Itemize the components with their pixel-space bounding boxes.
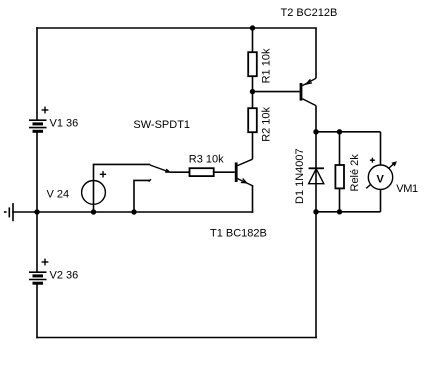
wire R3 to T1 base — [214, 171, 235, 173]
svg-text:T1 BC182B: T1 BC182B — [210, 227, 267, 239]
transistor T2 BC212B — [281, 7, 338, 105]
wire middle horizontal (ground net) — [13, 211, 253, 213]
switch SW-SPDT1 — [149, 165, 170, 182]
lever — [150, 165, 169, 172]
svg-text:VM1: VM1 — [396, 183, 418, 195]
wire right top rail — [316, 131, 381, 133]
ground — [5, 204, 13, 221]
wire bottom rail — [37, 337, 316, 339]
node: switch throw junction — [131, 209, 136, 214]
battery V2 — [29, 259, 78, 284]
wire T1 emitter vertical — [252, 186, 254, 212]
wire T1 collector vertical — [252, 132, 254, 159]
wire from lower throw to ground net — [134, 180, 149, 212]
svg-text:R1 10k: R1 10k — [260, 48, 272, 83]
resistor R1 — [248, 48, 272, 83]
voltage source V 24 — [47, 164, 150, 212]
lower throw contact tick — [149, 179, 151, 181]
voltmeter VM1 — [366, 132, 418, 212]
wire right bottom rail — [316, 211, 381, 213]
wire T2 emitter vertical — [315, 28, 317, 78]
svg-text:V2 36: V2 36 — [50, 270, 79, 282]
svg-text:Relé 2k: Relé 2k — [349, 154, 361, 192]
wire top rail — [37, 27, 316, 29]
node: relay bottom junction — [337, 209, 342, 214]
node: R1 top junction — [250, 25, 255, 30]
diode D1 1N4007 — [294, 132, 324, 212]
wire left rail lower — [36, 283, 38, 337]
svg-text:T2 BC212B: T2 BC212B — [281, 7, 338, 19]
wire switch common to R3 — [170, 171, 190, 173]
resistor R2 — [248, 106, 272, 141]
svg-text:V 24: V 24 — [47, 188, 70, 200]
wire R1 bottom lead — [252, 76, 254, 91]
wire left rail middle — [36, 132, 38, 273]
relay coil resistor Relé 2k — [335, 132, 360, 212]
wire base of T2 — [253, 91, 300, 93]
node: R1-R2-base junction — [250, 89, 255, 94]
node: relay top junction — [337, 129, 342, 134]
svg-text:V: V — [377, 173, 385, 185]
resistor R3 — [189, 154, 224, 176]
node: D1 bottom junction — [313, 209, 318, 214]
wire T2 collector vertical — [315, 106, 317, 132]
transistor T1 BC182B — [210, 159, 267, 239]
svg-text:R2 10k: R2 10k — [260, 106, 272, 141]
svg-text:V1 36: V1 36 — [50, 118, 79, 130]
svg-text:R3 10k: R3 10k — [189, 154, 224, 166]
svg-text:SW-SPDT1: SW-SPDT1 — [133, 119, 190, 131]
node: V24 bottom junction — [91, 209, 96, 214]
node: D1 top junction — [313, 129, 318, 134]
wire right lower vertical — [315, 212, 317, 338]
battery V1 — [29, 107, 78, 132]
wire R2 top lead — [252, 92, 254, 109]
svg-text:D1 1N4007: D1 1N4007 — [294, 148, 306, 204]
node: ground junction — [34, 209, 39, 214]
wire left rail upper — [36, 28, 38, 120]
wire R1 top lead — [252, 28, 254, 52]
